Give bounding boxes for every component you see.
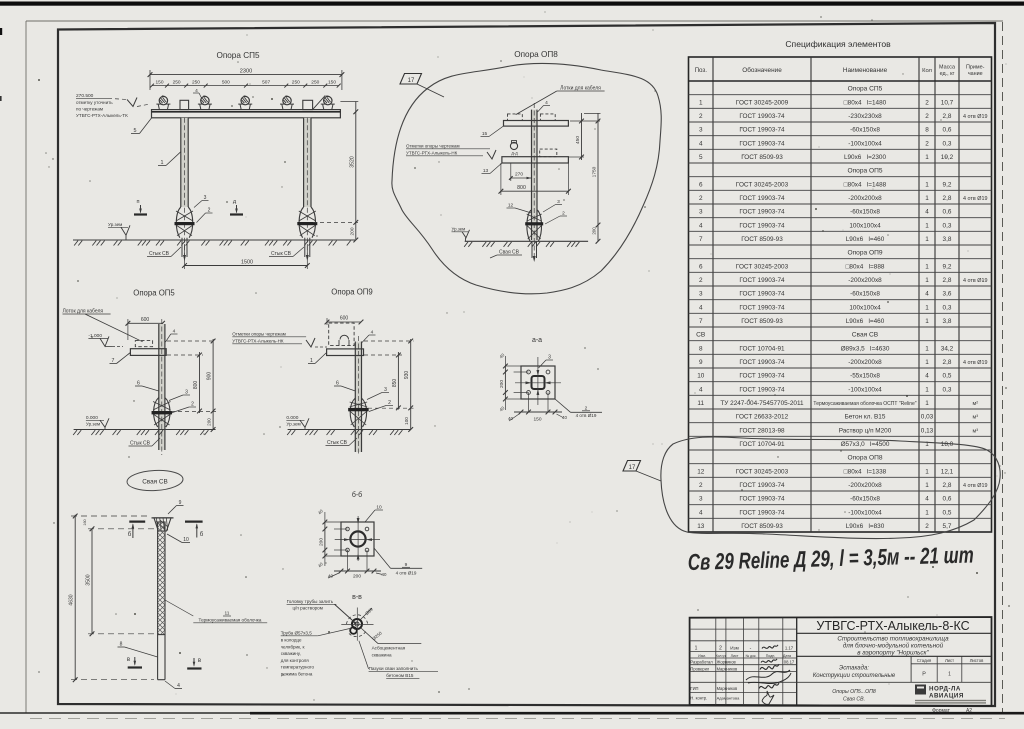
ОП5 right dim 800 [199, 352, 201, 413]
svg-text:б: б [128, 532, 132, 538]
svg-text:3: 3 [699, 496, 703, 503]
svg-text:Ур.зем: Ур.зем [452, 227, 466, 232]
title block outline [690, 617, 992, 706]
table revision cloud [661, 437, 1000, 539]
б-б pipe circle [350, 531, 365, 546]
svg-text:13: 13 [697, 523, 705, 530]
ОП9 right dim 930 and 100 [410, 339, 412, 430]
svg-text:900: 900 [207, 372, 213, 381]
svg-text:600: 600 [340, 316, 349, 322]
svg-text:9,2: 9,2 [943, 263, 952, 270]
svg-text:1: 1 [925, 359, 929, 366]
а-а hole tie lines [514, 371, 529, 373]
svg-text:ГОСТ 8509-93: ГОСТ 8509-93 [741, 523, 783, 530]
svg-text:1: 1 [948, 672, 951, 678]
svg-text:Раствор ц/п М200: Раствор ц/п М200 [839, 427, 892, 434]
ОП9 cable tray dashed box [329, 323, 354, 346]
svg-text:а-а: а-а [532, 337, 542, 344]
а-а centrelines with arrows [537, 357, 539, 405]
svg-text:челябрик, к: челябрик, к [281, 644, 305, 649]
б-б hole tie lines [334, 528, 348, 530]
СВ section mark в left [128, 666, 142, 668]
svg-text:270: 270 [515, 172, 523, 178]
ОП8 right dim 450 [581, 113, 583, 160]
svg-text:ГОСТ 30245-2003: ГОСТ 30245-2003 [736, 263, 789, 270]
svg-text:4: 4 [545, 100, 548, 106]
а-а leader 4 отв [555, 399, 571, 412]
svg-text:12: 12 [697, 468, 705, 475]
svg-text:Спецификация элементов: Спецификация элементов [785, 39, 891, 49]
svg-text:4: 4 [699, 140, 703, 147]
svg-text:м²: м² [972, 401, 978, 407]
СП5 left column [181, 118, 188, 207]
svg-text:9: 9 [699, 359, 703, 366]
СП5 crossarm beam [152, 110, 341, 118]
svg-text:6: 6 [699, 263, 703, 270]
svg-text:17: 17 [408, 78, 415, 84]
svg-text:в аэропорту "Норильск": в аэропорту "Норильск" [857, 650, 929, 657]
svg-text:Лист: Лист [731, 654, 739, 658]
svg-text:д-д: д-д [511, 151, 518, 156]
svg-text:в-в: в-в [352, 594, 362, 601]
svg-text:□80х4 l=1480: □80х4 l=1480 [844, 99, 887, 106]
svg-text:2: 2 [925, 113, 929, 120]
svg-text:□80х4 l=1338: □80х4 l=1338 [844, 468, 887, 475]
svg-text:Ø57х3,0 l=4500: Ø57х3,0 l=4500 [841, 441, 890, 448]
svg-text:ГОСТ 19903-74: ГОСТ 19903-74 [739, 386, 785, 393]
svg-text:1: 1 [925, 154, 929, 161]
ОП8 dim 800 [501, 190, 569, 192]
а-а base plate [521, 366, 555, 399]
svg-text:4 отв Ø19: 4 отв Ø19 [963, 196, 987, 202]
svg-text:100: 100 [404, 417, 409, 425]
ОП5 right dim 900 and 200 [212, 339, 214, 430]
svg-text:3,6: 3,6 [943, 291, 952, 298]
СП5 dim segments 150..250 [152, 85, 339, 87]
svg-text:Опора ОП8: Опора ОП8 [514, 50, 558, 59]
svg-text:1500: 1500 [241, 260, 253, 266]
svg-text:2,8: 2,8 [943, 113, 952, 120]
в-в pipe rings [352, 619, 362, 629]
svg-text:2: 2 [191, 402, 194, 408]
svg-text:4 отв Ø19: 4 отв Ø19 [963, 114, 987, 120]
svg-text:Строительство топливохранилища: Строительство топливохранилища [837, 636, 949, 643]
svg-text:Ур.зем: Ур.зем [286, 422, 300, 427]
ОП8 dim 270 [511, 177, 532, 179]
svg-text:УТВГС-РТХ-Алыкель-ТК: УТВГС-РТХ-Алыкель-ТК [76, 113, 128, 118]
в-в diag dim 89 [360, 608, 372, 620]
svg-text:1: 1 [925, 195, 929, 202]
svg-text:3: 3 [699, 127, 703, 134]
svg-text:ед., кг: ед., кг [940, 71, 955, 77]
svg-text:АВИАЦИЯ: АВИАЦИЯ [929, 693, 964, 700]
б-б left dim 200 [324, 522, 326, 556]
svg-text:0,3: 0,3 [943, 140, 952, 147]
svg-text:160: 160 [83, 519, 87, 525]
svg-text:Адамантова: Адамантова [717, 696, 741, 701]
svg-text:150: 150 [533, 417, 541, 423]
svg-text:4 отв Ø19: 4 отв Ø19 [963, 483, 987, 489]
svg-text:10: 10 [376, 505, 382, 511]
svg-text:Термоусаживаемая оболочка: Термоусаживаемая оболочка [199, 618, 262, 623]
svg-text:1: 1 [925, 386, 929, 393]
ОП8 ground line [465, 240, 588, 242]
svg-text:ГОСТ 19903-74: ГОСТ 19903-74 [739, 291, 785, 298]
svg-text:800: 800 [517, 185, 526, 191]
svg-text:3520: 3520 [350, 156, 356, 168]
svg-text:-200х200х8: -200х200х8 [848, 277, 882, 284]
svg-text:3: 3 [204, 195, 207, 201]
svg-text:0,3: 0,3 [943, 386, 952, 393]
svg-text:507: 507 [262, 80, 270, 86]
svg-text:ц/п раствором: ц/п раствором [293, 606, 323, 611]
svg-text:3: 3 [185, 390, 188, 396]
svg-text:ТУ 2247-004-75457705-2011: ТУ 2247-004-75457705-2011 [720, 400, 804, 407]
svg-text:1: 1 [925, 277, 929, 284]
svg-text:-60х150х8: -60х150х8 [850, 209, 880, 216]
СП5 right dim 3520 [340, 101, 358, 103]
svg-text:4: 4 [371, 330, 374, 336]
svg-text:ГОСТ 19903-74: ГОСТ 19903-74 [739, 209, 785, 216]
svg-text:б: б [200, 532, 204, 538]
svg-text:ГОСТ 8509-93: ГОСТ 8509-93 [741, 236, 783, 243]
в-в centrelines [356, 608, 358, 641]
svg-text:Труба Ø57х3,5: Труба Ø57х3,5 [281, 631, 313, 636]
svg-text:2300: 2300 [240, 69, 252, 75]
svg-text:Листов: Листов [970, 658, 984, 663]
СП5 cable saddle 4 [282, 104, 283, 110]
svg-text:ГОСТ 19903-74: ГОСТ 19903-74 [739, 222, 785, 229]
svg-text:150: 150 [155, 80, 163, 86]
svg-text:ГОСТ 19903-74: ГОСТ 19903-74 [739, 509, 785, 516]
svg-text:Отметки опоры чертежам: Отметки опоры чертежам [406, 144, 460, 149]
svg-text:17: 17 [629, 465, 636, 471]
б-б base plate [341, 522, 374, 556]
СП5 dim 2300 [150, 74, 342, 76]
svg-text:Термоусаживаемая оболочка ОСПТ: Термоусаживаемая оболочка ОСПТ "Reline" [813, 401, 916, 407]
б-б leader 9 4отв [374, 548, 391, 568]
svg-text:Опора ОП9: Опора ОП9 [847, 250, 882, 257]
svg-text:2,8: 2,8 [943, 195, 952, 202]
svg-text:0,6: 0,6 [943, 127, 952, 134]
svg-text:4: 4 [925, 209, 929, 216]
svg-text:СВ: СВ [696, 332, 706, 339]
svg-text:Конструкции строительные: Конструкции строительные [813, 673, 896, 679]
svg-text:5: 5 [699, 154, 703, 161]
svg-text:чание: чание [968, 71, 983, 77]
svg-text:4: 4 [173, 329, 176, 335]
svg-text:18,0: 18,0 [941, 441, 954, 448]
СВ section mark в right [187, 667, 201, 669]
svg-text:500: 500 [222, 80, 230, 86]
ОП8 right dim 1750 [597, 113, 599, 241]
svg-text:Кол.уч: Кол.уч [716, 654, 726, 658]
svg-text:4: 4 [925, 291, 929, 298]
svg-text:Стадия: Стадия [917, 658, 931, 663]
svg-text:ГОСТ 19903-74: ГОСТ 19903-74 [739, 304, 785, 311]
svg-text:1: 1 [925, 509, 929, 516]
svg-text:Ур.зем: Ур.зем [86, 422, 100, 427]
svg-text:Кол: Кол [922, 68, 932, 74]
ОП8 top crossarm tabs [508, 114, 523, 121]
svg-text:8: 8 [925, 127, 929, 134]
svg-text:1750: 1750 [592, 166, 598, 177]
svg-text:2: 2 [925, 140, 929, 147]
ОП8 column [532, 110, 538, 240]
svg-text:10: 10 [697, 373, 705, 380]
svg-text:-100х100х4: -100х100х4 [848, 509, 882, 516]
svg-text:для блочно-модульной котельной: для блочно-модульной котельной [843, 642, 944, 650]
svg-text:Свая СВ.: Свая СВ. [843, 697, 865, 703]
svg-text:Подп.: Подп. [766, 654, 776, 658]
svg-text:0,3: 0,3 [943, 222, 952, 229]
svg-text:3,8: 3,8 [943, 236, 952, 243]
svg-text:2,8: 2,8 [943, 359, 952, 366]
svg-text:Опора ОП8: Опора ОП8 [847, 455, 882, 462]
svg-text:в: в [127, 657, 130, 663]
svg-text:10,7: 10,7 [941, 99, 954, 106]
svg-text:1: 1 [925, 318, 929, 325]
svg-text:НОРД-ЛА: НОРД-ЛА [929, 686, 961, 693]
svg-text:□80х4 l=1488: □80х4 l=1488 [844, 181, 887, 188]
svg-text:Изм.: Изм. [698, 654, 706, 658]
svg-text:Изм: Изм [730, 646, 739, 651]
svg-text:режима бетона: режима бетона [281, 672, 313, 677]
svg-text:ГОСТ 19903-74: ГОСТ 19903-74 [739, 140, 785, 147]
svg-text:1: 1 [925, 304, 929, 311]
svg-text:2: 2 [699, 277, 703, 284]
svg-text:для контроля: для контроля [281, 658, 310, 663]
svg-text:ГОСТ 19903-74: ГОСТ 19903-74 [739, 373, 785, 380]
svg-text:1: 1 [925, 482, 929, 489]
svg-text:Р: Р [922, 672, 926, 678]
svg-text:-60х150х8: -60х150х8 [850, 291, 880, 298]
svg-text:0,03: 0,03 [921, 414, 934, 421]
svg-text:4: 4 [699, 386, 703, 393]
svg-text:Опоры ОП5...ОП8: Опоры ОП5...ОП8 [832, 689, 876, 695]
СП5 cable saddle 5 [323, 104, 324, 110]
svg-text:Головку трубы залить: Головку трубы залить [287, 599, 334, 604]
СП5 right pile bulb [299, 207, 303, 238]
СВ section mark б left [129, 520, 145, 522]
svg-text:ГОСТ 8509-93: ГОСТ 8509-93 [741, 318, 783, 325]
СП5 right column [304, 118, 311, 207]
svg-text:12: 12 [508, 203, 514, 209]
svg-text:4: 4 [925, 373, 929, 380]
svg-text:200: 200 [353, 574, 361, 580]
ОП9 dim 600 [327, 321, 361, 323]
svg-text:12,1: 12,1 [941, 468, 954, 475]
svg-text:1: 1 [925, 345, 929, 352]
svg-text:Опора ОП5: Опора ОП5 [133, 289, 175, 298]
а-а bottom dim 40 150 40 [514, 411, 562, 413]
svg-text:Формат: Формат [932, 708, 950, 714]
svg-text:ГОСТ 19903-74: ГОСТ 19903-74 [739, 496, 785, 503]
svg-text:2: 2 [719, 646, 722, 652]
svg-text:250: 250 [292, 80, 300, 86]
spec table grid [689, 57, 992, 532]
svg-text:0,5: 0,5 [943, 509, 952, 516]
svg-text:4 отв Ø19: 4 отв Ø19 [963, 360, 987, 366]
svg-text:-200х200х8: -200х200х8 [848, 359, 882, 366]
svg-text:-200х200х8: -200х200х8 [848, 482, 882, 489]
outer thin frame [26, 20, 1003, 22]
svg-text:3: 3 [557, 199, 560, 205]
svg-text:Пазухи сваи заполнить: Пазухи сваи заполнить [369, 666, 419, 671]
svg-text:УТВГС-РТХ-Алыкель-НК: УТВГС-РТХ-Алыкель-НК [406, 151, 458, 156]
ОП9 right dim 850 [397, 352, 399, 410]
svg-text:1: 1 [925, 181, 929, 188]
svg-text:ГОСТ 19903-74: ГОСТ 19903-74 [739, 113, 785, 120]
svg-text:4: 4 [699, 222, 703, 229]
svg-text:2: 2 [562, 211, 565, 217]
svg-text:1: 1 [925, 222, 929, 229]
svg-text:Обозначение: Обозначение [742, 66, 782, 74]
ОП8 pile bulb [527, 210, 531, 241]
svg-text:ГОСТ 19903-74: ГОСТ 19903-74 [739, 482, 785, 489]
СП5 right column cap plate [303, 100, 313, 109]
svg-text:2: 2 [388, 400, 391, 406]
svg-text:800: 800 [193, 381, 199, 390]
а-а column square [532, 376, 545, 389]
svg-text:2: 2 [699, 482, 703, 489]
svg-text:600: 600 [141, 317, 150, 323]
svg-text:L90х6 l=830: L90х6 l=830 [846, 523, 885, 530]
svg-text:-200х200х8: -200х200х8 [848, 195, 882, 202]
svg-text:по чертежам: по чертежам [76, 107, 103, 112]
svg-text:100х100х4: 100х100х4 [849, 222, 881, 229]
svg-text:L90х6 l=460: L90х6 l=460 [846, 236, 885, 243]
svg-text:ГОСТ 10704-91: ГОСТ 10704-91 [739, 345, 785, 352]
svg-text:3,8: 3,8 [943, 318, 952, 325]
svg-text:температурного: температурного [281, 665, 315, 670]
ОП5 pile bulb [154, 398, 159, 428]
svg-text:№ док.: № док. [746, 654, 757, 658]
СП5 cable saddle 1 [158, 104, 159, 110]
а-а left dim 200 [504, 366, 506, 399]
svg-text:11: 11 [225, 611, 230, 617]
scan top black bar [0, 2, 1024, 6]
svg-text:19,2: 19,2 [941, 154, 954, 161]
svg-text:Ø89х3,5 l=4630: Ø89х3,5 l=4630 [841, 345, 890, 352]
svg-text:2: 2 [208, 208, 211, 214]
svg-text:1: 1 [925, 236, 929, 243]
svg-text:Жорников: Жорников [717, 660, 736, 665]
svg-text:Приме-: Приме- [966, 65, 985, 71]
svg-text:А2: А2 [966, 708, 972, 714]
svg-text:200: 200 [592, 227, 597, 235]
svg-text:Асбоцементная: Асбоцементная [372, 646, 406, 651]
svg-text:200: 200 [207, 418, 212, 426]
svg-text:0,3: 0,3 [943, 304, 952, 311]
svg-text:0,6: 0,6 [943, 496, 952, 503]
ОП8 second crossarm dashed tab [540, 149, 557, 157]
svg-text:□80х4 l=888: □80х4 l=888 [846, 263, 885, 270]
svg-text:Дата: Дата [783, 654, 791, 658]
svg-text:250: 250 [192, 80, 200, 86]
СВ inner dim 3500 [91, 529, 93, 634]
svg-text:0,6: 0,6 [943, 209, 952, 216]
svg-text:м³: м³ [972, 428, 978, 434]
svg-text:13: 13 [483, 168, 489, 174]
svg-text:1: 1 [925, 263, 929, 270]
svg-text:9,2: 9,2 [943, 181, 952, 188]
СП5 cable saddle 3 [240, 104, 241, 110]
svg-text:1.17: 1.17 [785, 646, 794, 651]
svg-text:УТВГС-РТХ-Алыкель-8-КС: УТВГС-РТХ-Алыкель-8-КС [816, 619, 969, 633]
svg-text:L90х6 l=2300: L90х6 l=2300 [844, 154, 887, 161]
svg-text:2,8: 2,8 [943, 482, 952, 489]
svg-text:скважину,: скважину, [281, 651, 301, 656]
svg-text:ГОСТ 30245-2003: ГОСТ 30245-2003 [736, 468, 789, 475]
svg-text:08.17: 08.17 [784, 660, 795, 665]
svg-text:11: 11 [697, 400, 704, 407]
svg-text:150: 150 [328, 80, 336, 86]
СП5 cable saddle 2 [200, 104, 201, 110]
svg-text:200: 200 [319, 538, 325, 546]
svg-text:-100х100х4: -100х100х4 [848, 140, 882, 147]
svg-text:Свая СВ: Свая СВ [142, 479, 168, 486]
svg-text:Разработал: Разработал [690, 660, 713, 665]
svg-text:ГОСТ 19903-74: ГОСТ 19903-74 [739, 359, 785, 366]
ОП5 bracket beam [130, 349, 166, 356]
СП5 ground line [73, 239, 355, 241]
svg-text:6: 6 [699, 181, 703, 188]
title block big signature flourish [746, 670, 791, 684]
ОП5 dim 600 [128, 322, 163, 324]
svg-text:Бетон кл. В15: Бетон кл. В15 [845, 414, 886, 421]
title block left grid [690, 628, 797, 630]
svg-text:250: 250 [173, 80, 181, 86]
svg-text:в колодце: в колодце [281, 638, 302, 643]
svg-text:-230х230х8: -230х230х8 [848, 113, 882, 120]
в-в diag dim 250 [361, 628, 378, 644]
svg-text:ГИП: ГИП [690, 686, 698, 691]
svg-text:200: 200 [499, 380, 505, 388]
svg-text:930: 930 [404, 371, 410, 380]
svg-text:ГОСТ 26633-2012: ГОСТ 26633-2012 [736, 414, 789, 421]
svg-text:100х100х4: 100х100х4 [849, 304, 881, 311]
ОП8 head detail [510, 142, 517, 149]
ОП8 second crossarm [502, 157, 569, 163]
svg-text:4: 4 [925, 496, 929, 503]
svg-text:7: 7 [699, 318, 703, 325]
svg-text:Свая СВ: Свая СВ [852, 332, 879, 339]
ОП9 bracket beam [327, 349, 364, 356]
svg-text:Наименование: Наименование [843, 67, 888, 74]
svg-text:скважина: скважина [372, 653, 392, 658]
svg-text:34,2: 34,2 [941, 345, 954, 352]
scan left edge marks [0, 28, 2, 35]
svg-text:ГОСТ 19903-74: ГОСТ 19903-74 [739, 127, 785, 134]
svg-text:ГОСТ 30245-2003: ГОСТ 30245-2003 [736, 181, 789, 188]
svg-text:1: 1 [695, 646, 698, 652]
ОП5 column [159, 324, 165, 450]
svg-text:850: 850 [392, 379, 398, 388]
svg-text:0,5: 0,5 [943, 373, 952, 380]
СВ handwritten oval label [127, 469, 184, 492]
table revision flag 17 [623, 461, 641, 472]
svg-text:-55х150х8: -55х150х8 [850, 373, 880, 380]
svg-text:Опора СП5: Опора СП5 [848, 86, 883, 93]
svg-text:м³: м³ [972, 415, 978, 421]
ОП8 top crossarm [504, 121, 569, 127]
ОП8 revision flag 17 [400, 74, 422, 85]
СВ pile head cap [154, 518, 171, 531]
б-б bottom dim 40 200 40 [334, 570, 381, 572]
svg-text:3: 3 [699, 291, 703, 298]
svg-text:ГОСТ 28013-98: ГОСТ 28013-98 [739, 427, 785, 434]
